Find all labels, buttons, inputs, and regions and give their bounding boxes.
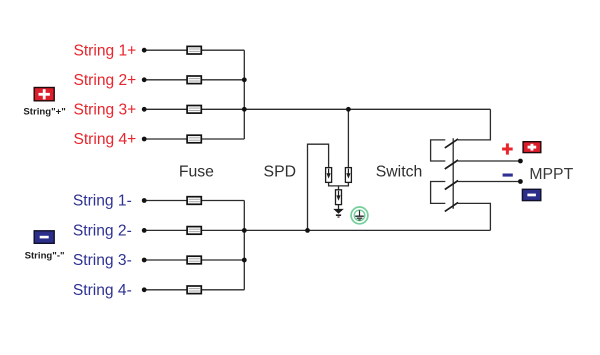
wire switch output minus — [458, 181, 521, 183]
junction negative bus String 2- — [242, 228, 247, 233]
junction SPD positive tap — [346, 107, 351, 112]
terminal dot String 2+ — [142, 77, 147, 82]
wire String 4+ — [144, 138, 244, 140]
fuse String 4- — [187, 286, 201, 294]
icon MPPT minus box — [522, 189, 540, 200]
terminal dot String 3- — [142, 258, 147, 263]
icon string plus box — [34, 88, 54, 101]
switch blade pole 4 — [445, 202, 458, 211]
fuse String 1- — [187, 197, 201, 205]
wire switch output plus — [458, 160, 521, 162]
wire String 3+ — [144, 108, 244, 110]
fuse String 2+ — [187, 76, 201, 84]
wire positive bus vertical — [243, 50, 245, 139]
junction negative bus String 3- — [242, 258, 247, 263]
svg-text:String 1-: String 1- — [73, 193, 132, 210]
surge arrester SPD left — [326, 168, 332, 183]
wire String 4- — [144, 289, 244, 291]
svg-text:Switch: Switch — [376, 164, 423, 181]
wire negative bus vertical — [243, 201, 245, 290]
node MPPT minus terminal — [518, 179, 523, 184]
earth symbol in green circle — [351, 207, 368, 224]
wire SPD branch from positive bus — [347, 109, 349, 167]
switch linkage bar — [452, 138, 454, 209]
wire String 2+ — [144, 79, 244, 81]
svg-text:String"+": String"+" — [23, 106, 65, 117]
wire positive bus horizontal — [244, 108, 490, 110]
surge arrester SPD middle — [336, 190, 342, 205]
switch left bracket upper — [431, 140, 446, 161]
switch blade pole 1 — [445, 139, 458, 148]
node MPPT plus terminal — [518, 159, 523, 164]
icon string minus box — [34, 231, 54, 244]
wire positive bus drop to switch — [458, 109, 491, 140]
fuse String 3- — [187, 256, 201, 264]
fuse String 3+ — [187, 106, 201, 114]
switch blade pole 2 — [445, 160, 458, 169]
wire String 2- — [144, 229, 244, 231]
terminal dot String 3+ — [142, 107, 147, 112]
wire SPD branch from negative bus — [308, 144, 329, 230]
junction positive bus String 2+ — [242, 77, 247, 82]
ground — [333, 209, 344, 218]
switch left bracket lower — [431, 182, 446, 204]
surge arrester SPD right — [345, 168, 351, 183]
fuse String 1+ — [187, 46, 201, 54]
wire String 3- — [144, 259, 244, 261]
wire negative bus horizontal — [244, 229, 490, 231]
svg-text:MPPT: MPPT — [529, 166, 573, 183]
fuse String 4+ — [187, 135, 201, 143]
svg-text:String 4-: String 4- — [73, 282, 132, 299]
svg-text:String"-": String"-" — [25, 250, 65, 261]
terminal dot String 2- — [142, 228, 147, 233]
wire String 1+ — [144, 49, 244, 51]
terminal dot String 4- — [142, 287, 147, 292]
svg-text:String 2+: String 2+ — [73, 72, 136, 89]
terminal dot String 4+ — [142, 137, 147, 142]
wire SPD middle stub — [338, 186, 340, 190]
label plus output — [502, 143, 513, 154]
wire SPD bottoms join — [329, 182, 349, 186]
svg-text:String 3+: String 3+ — [73, 102, 136, 119]
switch blade pole 3 — [445, 181, 458, 190]
junction positive bus String 3+ — [242, 107, 247, 112]
wire negative bus rise to switch — [458, 203, 491, 230]
wire String 1- — [144, 200, 244, 202]
terminal dot String 1+ — [142, 48, 147, 53]
svg-text:String 1+: String 1+ — [73, 42, 136, 59]
label minus output — [503, 174, 513, 177]
svg-text:String 2-: String 2- — [73, 223, 132, 240]
junction SPD negative tap — [305, 228, 310, 233]
svg-text:String 3-: String 3- — [73, 252, 132, 269]
terminal dot String 1- — [142, 198, 147, 203]
fuse String 2- — [187, 227, 201, 235]
icon MPPT plus box — [523, 142, 541, 153]
svg-text:Fuse: Fuse — [179, 164, 214, 181]
svg-text:SPD: SPD — [264, 164, 296, 181]
svg-text:String 4+: String 4+ — [73, 131, 136, 148]
wire SPD to ground — [338, 205, 340, 209]
switch S1 — [431, 138, 454, 209]
